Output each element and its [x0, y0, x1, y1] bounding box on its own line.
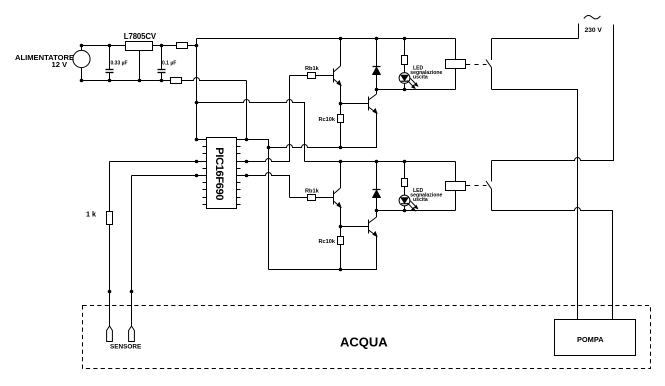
- wire PIC RC lower drive with hop: [237, 173, 290, 198]
- lower stage rail from 5V: [305, 161, 456, 163]
- voltage source ALIMENTATORE 12V: [73, 46, 90, 81]
- svg-text:0.33 µF: 0.33 µF: [111, 60, 128, 66]
- transistor Q1 upper: [334, 39, 341, 104]
- wire 230V neutral to contact S2 with hop: [492, 25, 614, 161]
- svg-text:Rc10k: Rc10k: [319, 117, 336, 123]
- svg-text:0.1 µF: 0.1 µF: [162, 60, 176, 66]
- resistor Rc 10k upper: [338, 104, 344, 148]
- svg-text:SENSORE: SENSORE: [110, 343, 142, 350]
- wire sensor1 input to PIC: [110, 161, 207, 163]
- svg-text:L7805CV: L7805CV: [124, 32, 157, 41]
- sensor probe 2: [129, 326, 135, 342]
- wire contact S2 to pump with hop: [492, 208, 613, 320]
- resistor 1k: [107, 212, 113, 225]
- wire Q1 emitter node to Q2 base: [341, 103, 369, 105]
- svg-text:uscita: uscita: [413, 75, 428, 81]
- capacitor 0.1uF: [158, 46, 166, 81]
- fuse on 5V rail: [177, 43, 188, 49]
- IC U1 PIC16F690: [207, 138, 237, 209]
- wire Q4 emitter to lower ground rail: [269, 236, 377, 270]
- relay coil K2: [446, 162, 466, 211]
- svg-text:12 V: 12 V: [52, 60, 69, 69]
- wire ground net segment to Q2 emitter: [341, 113, 377, 148]
- water tank dashed box ACQUA: [83, 306, 651, 369]
- relay contact S2: [486, 161, 492, 211]
- relay K2 actuation dashed link: [466, 185, 487, 187]
- wire 230V live to contact S1: [492, 38, 579, 40]
- LED lower: [399, 195, 418, 211]
- pump POMPA: [555, 320, 636, 356]
- wire 5V rail after regulator: [153, 45, 177, 47]
- AC source 230V: [579, 15, 601, 38]
- wire after fuse to node: [188, 45, 197, 47]
- diode D1 flyback: [373, 39, 381, 90]
- LED upper: [399, 73, 418, 90]
- diode D2 flyback: [373, 162, 381, 211]
- PIC pin stubs left: [203, 140, 207, 205]
- transistor Q2 upper: [369, 90, 377, 114]
- svg-text:Rb1k: Rb1k: [305, 188, 320, 194]
- wire PIC RC upper drive with hop: [237, 76, 290, 162]
- label ALIMENTATORE 12 V: [15, 53, 74, 69]
- fuse on ground rail: [171, 78, 182, 84]
- svg-text:uscita: uscita: [413, 197, 428, 203]
- svg-text:POMPA: POMPA: [577, 335, 604, 344]
- wire sensor1 vertical: [109, 162, 111, 327]
- wire sensor2 input to PIC: [132, 175, 207, 177]
- wire sensor2 vertical: [131, 176, 133, 327]
- sensor probe 1: [107, 326, 113, 342]
- wire ground vertical to PIC: [246, 81, 248, 140]
- resistor Rb 1k lower: [290, 195, 334, 201]
- PIC pin stubs right: [237, 140, 241, 205]
- transistor Q4 lower: [369, 211, 377, 237]
- wire PIC Vss to ground net: [237, 140, 269, 148]
- resistor LED series upper: [402, 39, 408, 73]
- resistor Rc 10k lower: [338, 227, 344, 270]
- wire Vdd to PIC pin1: [197, 139, 207, 141]
- wire Q2 collector row: [377, 89, 456, 91]
- regulator L7805CV: [126, 42, 153, 81]
- resistor Rb 1k upper: [290, 73, 334, 79]
- svg-text:PIC16F690: PIC16F690: [213, 147, 225, 200]
- transistor Q3 lower: [334, 162, 341, 227]
- svg-text:1 k: 1 k: [86, 209, 96, 218]
- label LED segnalazione uscita lower: [410, 188, 442, 203]
- svg-text:230 V: 230 V: [585, 27, 603, 34]
- wire Q4 collector row: [377, 210, 456, 212]
- relay coil K1: [446, 39, 466, 90]
- svg-text:Rc10k: Rc10k: [319, 239, 336, 245]
- svg-text:ACQUA: ACQUA: [340, 335, 388, 350]
- wire +12V rail: [82, 45, 126, 47]
- capacitor 0.33uF: [106, 46, 114, 81]
- label LED segnalazione uscita upper: [410, 65, 442, 80]
- wire 5V vertical distribution: [196, 39, 198, 140]
- wire contact S1 to pump: [492, 90, 578, 320]
- junction node dots: [80, 37, 407, 294]
- wire ground net down to lower rail: [268, 148, 270, 270]
- svg-text:Rb1k: Rb1k: [305, 66, 320, 72]
- relay K1 actuation dashed link: [466, 64, 487, 66]
- relay contact S1: [486, 39, 492, 90]
- wire 5V feed to lower stage with hops: [197, 100, 305, 162]
- resistor LED series lower: [402, 162, 408, 196]
- wire ground net to upper stage with hops: [269, 145, 341, 148]
- ground rail with hop over 5V vertical: [82, 78, 247, 81]
- wire Q3 emitter node to Q4 base: [341, 226, 369, 228]
- wire top 5V rail: [197, 38, 456, 40]
